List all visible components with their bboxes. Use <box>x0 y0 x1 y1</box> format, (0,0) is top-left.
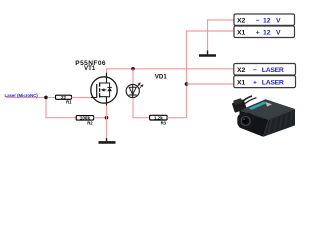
module right face <box>263 109 295 137</box>
wire source node to ground <box>106 118 108 140</box>
connector X2 -LASER <box>234 64 296 76</box>
module connector plug <box>231 97 247 112</box>
module front face <box>240 111 269 137</box>
svg-text:VD1: VD1 <box>155 74 168 81</box>
channel segments <box>99 83 101 87</box>
resistor R3 <box>150 115 168 125</box>
wire drain rail: MOSFET drain up, right to X2 -LASER <box>107 69 234 76</box>
svg-text:R2: R2 <box>87 120 93 125</box>
gate bar <box>96 84 98 98</box>
ground (bottom, source) <box>99 138 116 142</box>
module wires <box>241 96 253 104</box>
module body top face <box>240 99 296 120</box>
wire X2 -12V to ground <box>208 20 235 51</box>
wire to X1 +LASER <box>187 83 234 85</box>
svg-text:VT1: VT1 <box>84 65 96 72</box>
module label (cyan) <box>249 102 268 110</box>
connector X1 +12V <box>234 26 295 38</box>
LED VD1 <box>126 83 143 98</box>
node input (junction) <box>44 96 48 100</box>
wire source (circle bottom to node) <box>106 102 108 118</box>
transistor VT1 (P55NF06 MOSFET) <box>91 73 117 106</box>
body arrow <box>102 89 107 91</box>
wire R2 to source node <box>94 117 107 119</box>
node drain / VD1 top (junction) <box>131 67 135 71</box>
svg-text:+12V: +12V <box>256 30 281 37</box>
wire +12V vertical and top run <box>187 31 235 118</box>
module lens barrel <box>237 113 254 128</box>
node source (junction) <box>105 116 109 120</box>
body diode <box>107 83 110 97</box>
connector X2 -12V <box>234 14 295 25</box>
node +LASER tap (junction) <box>185 82 189 86</box>
wire input from label to node <box>6 97 45 99</box>
laser module photo <box>231 96 295 137</box>
svg-text:R3: R3 <box>161 120 167 125</box>
wire VD1 bottom to R3 <box>133 99 150 118</box>
svg-text:X2: X2 <box>237 67 246 74</box>
wire R3 to +12V vertical <box>167 117 186 119</box>
svg-text:Laser (MicroNC): Laser (MicroNC) <box>5 93 39 98</box>
wire VD1 top <box>132 69 134 85</box>
resistor R2 <box>76 116 93 126</box>
connector X1 +LASER <box>234 76 296 88</box>
svg-text:R1: R1 <box>66 99 72 104</box>
wire R1 to gate <box>72 97 94 99</box>
source stub <box>100 97 107 106</box>
wire node to R1 (gray lead) <box>48 97 56 99</box>
svg-text:−12V: −12V <box>256 17 281 24</box>
wire node down to R2 rail <box>46 99 76 118</box>
drain stub <box>100 73 107 83</box>
svg-text:X2: X2 <box>237 17 246 24</box>
gate lead into circle <box>91 97 97 99</box>
svg-text:X1: X1 <box>237 79 246 86</box>
ground (top right) <box>199 51 216 56</box>
svg-text:X1: X1 <box>237 30 246 37</box>
resistor R1 <box>56 95 73 105</box>
module fins <box>269 110 293 132</box>
